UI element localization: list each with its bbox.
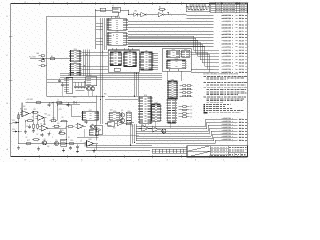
gate U30: [105, 122, 117, 126]
resistor R18: [32, 139, 40, 141]
wire: [94, 143, 99, 145]
svg-text:R2: R2: [159, 7, 161, 9]
wire: [118, 10, 129, 16]
resistor R25: [67, 126, 75, 128]
resistor R10: [35, 102, 43, 104]
resistor network RN2: [180, 85, 193, 97]
transistor Q3: [86, 87, 91, 91]
resistor R12: [31, 109, 39, 113]
IC U11: [69, 62, 82, 76]
relay K1: [86, 75, 97, 86]
diode CR1: [129, 11, 138, 17]
note: notes text block: [203, 73, 247, 113]
wire: [105, 97, 140, 100]
svg-text:U10: U10: [74, 49, 77, 51]
resistor R24: [60, 120, 68, 122]
svg-text:U26: U26: [89, 139, 92, 141]
svg-text:J1-14: J1-14: [239, 53, 245, 55]
IC U27: [81, 110, 99, 120]
op-amp U22: [20, 108, 31, 116]
svg-text:U16: U16: [154, 103, 157, 105]
capacitor C15: [85, 120, 88, 124]
note: title block: [187, 146, 247, 157]
svg-text:C4: C4: [51, 103, 53, 105]
wire: [135, 72, 139, 96]
wire: [108, 35, 132, 50]
svg-text:L1: L1: [57, 99, 59, 101]
wire: [76, 90, 85, 92]
svg-text:R40: R40: [37, 53, 40, 55]
svg-text:U18: U18: [113, 111, 116, 113]
svg-text:C5: C5: [26, 126, 28, 128]
wire: [19, 102, 67, 143]
svg-text:Q9: Q9: [55, 140, 57, 142]
svg-text:U27: U27: [89, 110, 92, 112]
wire: [83, 50, 89, 76]
wire: [6, 2, 247, 162]
svg-text:R19: R19: [70, 140, 73, 142]
svg-text:+12V FILT: +12V FILT: [26, 99, 33, 101]
resistor R15: [50, 118, 58, 122]
svg-text:J1-10: J1-10: [239, 40, 245, 42]
diode CR2: [74, 101, 77, 103]
capacitor C13: [83, 82, 86, 89]
capacitor C7: [67, 102, 70, 106]
svg-text:NOTES: UNLESS OTHERWISE SPECIF: NOTES: UNLESS OTHERWISE SPECIFIED: [203, 73, 239, 75]
wire: [0, 0, 1, 1]
svg-text:100: 100: [57, 123, 60, 125]
inductor L1: [57, 99, 62, 103]
svg-text:XX: XX: [190, 106, 192, 108]
transistor Q7: [161, 129, 166, 133]
svg-text:U13: U13: [184, 49, 187, 51]
resistor R2: [158, 7, 166, 13]
note: drawing release text: [186, 3, 209, 11]
transistor Q10: [90, 125, 95, 129]
note: revision table: [211, 2, 248, 12]
node IN: [29, 57, 71, 60]
ground: [48, 132, 51, 135]
gate U2A: [137, 12, 158, 16]
resistor network RN1: [179, 106, 193, 119]
wire: [130, 123, 137, 146]
IC U18: [109, 111, 121, 120]
capacitor C8: [59, 129, 62, 133]
svg-text:U14: U14: [175, 59, 178, 61]
IC U7 U8 block: [108, 50, 139, 72]
IC U19: [126, 111, 131, 123]
wire: [95, 10, 97, 49]
svg-text:C20: C20: [131, 126, 134, 128]
op-amp U24: [39, 124, 50, 131]
capacitor C11: [77, 82, 80, 89]
ground: [24, 130, 27, 133]
svg-text:J1-18: J1-18: [239, 66, 245, 68]
resistor R16: [53, 125, 61, 127]
IC U29: [89, 130, 98, 136]
gate U2B: [158, 12, 172, 17]
capacitor C10: [74, 82, 77, 89]
IC U16: [151, 103, 162, 122]
svg-text:R26: R26: [61, 130, 64, 132]
svg-text:J1-12: J1-12: [239, 47, 245, 49]
wire: [0, 0, 1, 1]
wire: [96, 121, 170, 135]
IC U17: [166, 97, 176, 123]
svg-text:C2: C2: [26, 137, 28, 139]
svg-text:U34: U34: [171, 80, 174, 82]
capacitor C4: [48, 102, 53, 106]
svg-text:2N: 2N: [62, 117, 64, 119]
ground: [17, 146, 20, 149]
svg-text:+5V: +5V: [73, 97, 76, 99]
ground: [37, 147, 40, 150]
IC U4: [107, 17, 128, 30]
wire: [152, 54, 158, 70]
svg-text:U12: U12: [172, 49, 175, 51]
svg-text:U22: U22: [24, 109, 27, 111]
svg-text:U7: U7: [115, 51, 117, 53]
transistor Q4: [90, 87, 95, 91]
wire: [167, 71, 181, 81]
svg-text:10K: 10K: [47, 146, 50, 148]
svg-text:R31: R31: [105, 124, 108, 126]
wire: [26, 99, 97, 102]
resistor R26: [58, 130, 66, 134]
svg-text:.01: .01: [40, 123, 42, 125]
svg-text:U8: U8: [129, 51, 131, 53]
resistor R14: [33, 123, 35, 130]
IC U10: [69, 49, 82, 62]
IC U12 U13 block: [162, 49, 191, 72]
svg-text:R12: R12: [33, 109, 36, 111]
op-amp U33: [95, 125, 102, 135]
svg-text:P2-7: P2-7: [12, 120, 15, 122]
resistor R17: [25, 140, 33, 144]
wire staircase to J2: [136, 119, 216, 143]
svg-text:VREF: VREF: [59, 103, 63, 105]
wire: [82, 52, 109, 69]
capacitor C9: [69, 146, 72, 150]
connector P3: [64, 75, 73, 93]
crystal Y1: [96, 5, 121, 12]
svg-text:J1-20: J1-20: [239, 72, 245, 74]
svg-text:P2-4 SIG: P2-4 SIG: [29, 57, 36, 59]
svg-text:J1-13: J1-13: [239, 50, 245, 52]
capacitor C5: [26, 124, 31, 128]
op-amp U26: [85, 139, 96, 146]
svg-text:R5: R5: [51, 56, 53, 58]
svg-text:P2-9: P2-9: [12, 129, 15, 131]
node P2: [12, 120, 18, 124]
svg-text:.01: .01: [80, 141, 82, 143]
resistor R19: [68, 140, 76, 144]
svg-text:CR1: CR1: [134, 11, 137, 13]
resistor R13: [18, 113, 20, 120]
svg-text:U11: U11: [74, 62, 77, 64]
IC U34: [167, 80, 178, 99]
svg-text:J1-15: J1-15: [239, 56, 245, 58]
svg-text:R17: R17: [27, 140, 30, 142]
svg-text:U9: U9: [145, 51, 147, 53]
svg-text:Q5: Q5: [121, 110, 123, 112]
svg-text:U4: U4: [116, 17, 118, 19]
svg-text:Y1: Y1: [112, 5, 114, 7]
svg-text:XX: XX: [190, 113, 192, 115]
svg-text:U19: U19: [127, 111, 130, 113]
transistor Q8: [42, 139, 47, 145]
capacitor C12: [80, 82, 83, 89]
svg-text:R32: R32: [113, 128, 116, 130]
svg-text:10: 10: [37, 134, 39, 136]
resistor R5: [49, 56, 57, 60]
IC U5: [107, 31, 128, 45]
op-amp U28: [75, 123, 86, 128]
svg-text:4.7K: 4.7K: [48, 115, 51, 117]
capacitor C6: [76, 145, 79, 149]
node J2 signal wires: [216, 118, 247, 142]
svg-text:U17: U17: [170, 97, 173, 99]
wire: [86, 144, 152, 151]
IC U15: [138, 95, 152, 124]
svg-text:J1-19: J1-19: [239, 69, 245, 71]
node junction dots: [18, 10, 137, 144]
resistor R23: [37, 123, 39, 130]
svg-text:R21: R21: [45, 113, 48, 115]
svg-text:U15: U15: [144, 95, 147, 97]
IC U25: [61, 139, 67, 146]
node J1 signal wires: [128, 15, 247, 74]
wire: [47, 91, 106, 141]
svg-text:1K: 1K: [68, 137, 70, 139]
ground: [32, 129, 35, 132]
svg-text:J1-17: J1-17: [239, 62, 245, 64]
svg-text:CR3: CR3: [59, 109, 62, 111]
transistor Q5: [120, 113, 125, 117]
resistor R40: [37, 53, 45, 57]
svg-text:10K: 10K: [23, 106, 26, 108]
wire: [22, 82, 80, 125]
svg-text:R30: R30: [104, 94, 107, 96]
capacitor C14: [41, 133, 44, 137]
ground: [76, 149, 79, 152]
op-amp U23: [36, 113, 48, 120]
svg-text:U24: U24: [43, 124, 46, 126]
ground: [93, 149, 96, 152]
resistor R41: [39, 60, 45, 62]
wire: [47, 16, 119, 96]
note: reference designator strip: [152, 148, 187, 154]
svg-text:U18: U18: [110, 110, 113, 112]
gate U32: [126, 121, 134, 125]
wire: [96, 17, 119, 44]
wire: [58, 102, 99, 137]
transistor Q9: [54, 140, 59, 146]
IC U9: [139, 51, 154, 70]
resistor R22: [26, 120, 34, 122]
svg-text:U5: U5: [116, 31, 118, 33]
note: value labels: [23, 94, 134, 148]
capacitor C16: [58, 78, 61, 82]
resistor R42: [39, 65, 47, 67]
capacitor C17: [61, 82, 64, 96]
wire: [172, 14, 187, 17]
svg-text:Q8: Q8: [43, 139, 45, 141]
buffer U21: [153, 126, 162, 132]
gate U31: [117, 121, 126, 126]
ground: [62, 148, 65, 151]
wire: [12, 129, 22, 133]
wire: [60, 74, 162, 80]
wire: [18, 143, 86, 145]
wire staircase to J1: [128, 36, 219, 72]
wire: [101, 18, 107, 124]
buffer U20: [139, 125, 153, 132]
svg-text:1K: 1K: [32, 117, 34, 119]
svg-text:XX: XX: [190, 110, 192, 112]
transistor Q6: [120, 119, 125, 123]
svg-text:XX: XX: [190, 116, 192, 118]
wire: [73, 81, 86, 83]
svg-text:J1-16: J1-16: [239, 59, 245, 61]
